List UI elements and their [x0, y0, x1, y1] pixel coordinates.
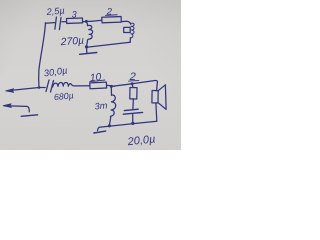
- wire: R4 to capacitor C3: [132, 99, 135, 109]
- wire: right side down to speaker: [156, 82, 159, 91]
- label 10 underline: [90, 80, 105, 82]
- svg-text:3m: 3m: [94, 100, 108, 111]
- inductor L1 270µ: lead from node A: [86, 21, 87, 25]
- input terminal arrow (top): [7, 88, 45, 91]
- ground GND2 bar: [94, 131, 106, 133]
- tweeter BA1: cone squiggle: [131, 26, 134, 34]
- tweeter BA1: top curl: [131, 23, 134, 26]
- ground node junction dot: [85, 45, 88, 48]
- inductor L3 coil loops: [110, 95, 115, 117]
- label 2 (R4) underline: [129, 80, 139, 83]
- resistor R1 (3 ohm): [67, 18, 83, 23]
- label 2 underline: [106, 14, 118, 17]
- value label 2 (R4): [129, 71, 137, 83]
- ground GND2 stub: [98, 127, 100, 130]
- inductor L2 arches: [53, 83, 75, 87]
- speaker BA2 body box: [152, 91, 158, 103]
- node B junction dot: [110, 85, 113, 88]
- bottom terminal corner down: [26, 106, 29, 111]
- svg-text:270µ: 270µ: [59, 36, 84, 49]
- arrowhead top input: [6, 89, 14, 93]
- wire: R3 to node B: [107, 85, 115, 86]
- resistor R4 (2 ohm) lead from node C: [132, 84, 133, 88]
- value label 270µ: [59, 36, 84, 49]
- wire: speaker to bottom-right corner: [155, 103, 158, 121]
- value label 3: [72, 10, 77, 20]
- wire: node A to R2: [92, 19, 102, 22]
- svg-text:10: 10: [89, 72, 102, 84]
- bottom terminal ground bar: [21, 115, 37, 117]
- node A junction dot: [85, 20, 88, 23]
- capacitor bottom junction dot: [131, 122, 134, 125]
- resistor R2 (2 ohm): [102, 17, 121, 23]
- capacitor C3 upper plate: [124, 109, 138, 110]
- value label 2: [106, 5, 113, 16]
- speaker BA2 cone: [158, 85, 166, 110]
- value label 30,0µ: [43, 64, 68, 78]
- value label 3m: [94, 100, 108, 111]
- svg-text:3: 3: [72, 10, 77, 20]
- capacitor C1 plates: [55, 17, 57, 29]
- wire: node B to node C to top-right corner: [111, 80, 157, 86]
- paper texture: [0, 0, 181, 150]
- tweeter BA1: body box: [124, 27, 131, 32]
- arrowhead bottom input: [3, 104, 11, 108]
- tweeter BA1: bottom curl: [131, 34, 133, 38]
- value label 2,5µ: [45, 5, 65, 17]
- bottom wire of woofer loop: [99, 121, 157, 127]
- value label 10: [89, 72, 102, 84]
- svg-text:2,5µ: 2,5µ: [45, 5, 65, 17]
- wire: C1 to R1: [62, 21, 67, 23]
- inductor L3 tail: [109, 117, 110, 126]
- ground GND1 bar: [80, 53, 97, 55]
- wire: corner horizontal to capacitor C1: [45, 22, 54, 25]
- inductor L3 3m: stub from node B: [110, 86, 112, 95]
- resistor R4 vertical box: [130, 88, 137, 99]
- resistor R3 (10 ohm): [90, 82, 107, 89]
- wire: bottom of top loop back to ground node: [87, 42, 131, 47]
- capacitor C2 plates (680µ / 30,0µ): [46, 80, 49, 92]
- wire: R2 to top-right corner, down to tweeter: [121, 21, 130, 24]
- coil bottom junction dot: [108, 124, 111, 127]
- svg-text:680µ: 680µ: [53, 90, 74, 102]
- inductor L1 270µ coil loops: [87, 25, 92, 41]
- wire: tweeter to bottom-right corner of top loop: [129, 38, 131, 43]
- ground GND1 stub: [86, 47, 88, 53]
- input terminal arrow (bottom): [5, 105, 27, 108]
- value label 20,0µ: [126, 133, 156, 148]
- wire: L2 to R3: [75, 85, 90, 87]
- inductor L1 tail to ground node: [86, 41, 89, 47]
- input node junction dot: [38, 86, 41, 89]
- capacitor C3 lower plate: [123, 112, 142, 114]
- value label 680µ: [53, 90, 74, 102]
- wire: left vertical from top corner down to input node: [39, 23, 46, 88]
- wire: R1 to node A: [83, 20, 92, 22]
- wire: C3 to bottom wire: [132, 114, 134, 123]
- node C junction dot: [131, 82, 134, 85]
